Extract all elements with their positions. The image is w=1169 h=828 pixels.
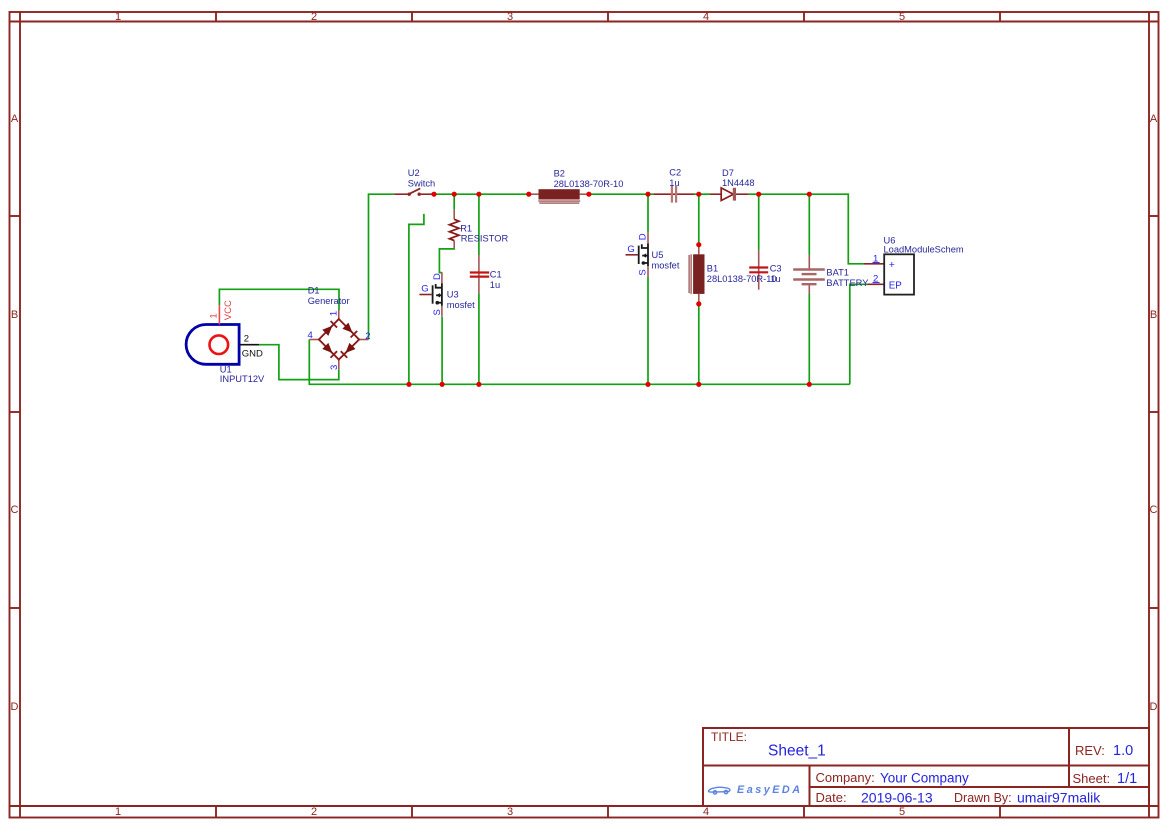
svg-text:mosfet: mosfet	[447, 300, 475, 310]
svg-text:C3: C3	[770, 264, 782, 274]
svg-text:4: 4	[703, 806, 709, 818]
svg-text:D7: D7	[722, 168, 734, 178]
svg-text:Sheet_1: Sheet_1	[768, 743, 826, 760]
svg-text:REV:: REV:	[1075, 743, 1105, 758]
svg-text:A: A	[1150, 113, 1158, 125]
svg-text:D1: D1	[308, 286, 320, 296]
svg-text:D: D	[11, 701, 19, 713]
svg-text:1: 1	[329, 311, 340, 316]
svg-text:GND: GND	[242, 349, 263, 360]
svg-text:1: 1	[115, 806, 121, 818]
svg-text:B: B	[1150, 309, 1157, 321]
svg-text:3: 3	[329, 365, 340, 370]
svg-text:B: B	[11, 309, 18, 321]
svg-text:B1: B1	[707, 264, 718, 274]
svg-text:D: D	[637, 233, 648, 240]
svg-text:2: 2	[244, 334, 249, 345]
svg-text:EP: EP	[889, 280, 903, 291]
svg-text:D: D	[432, 273, 443, 280]
svg-text:5: 5	[899, 11, 905, 23]
svg-text:Drawn By:: Drawn By:	[954, 791, 1012, 805]
svg-text:28L0138-70R-10: 28L0138-70R-10	[554, 179, 624, 189]
svg-text:INPUT12V: INPUT12V	[220, 374, 265, 384]
svg-text:2: 2	[311, 806, 317, 818]
svg-text:C2: C2	[669, 168, 681, 178]
svg-text:A: A	[11, 113, 19, 125]
svg-text:S: S	[432, 309, 443, 315]
svg-text:Your Company: Your Company	[880, 771, 969, 786]
svg-text:3: 3	[507, 806, 513, 818]
svg-text:umair97malik: umair97malik	[1017, 790, 1101, 806]
svg-text:mosfet: mosfet	[652, 260, 680, 270]
svg-text:5: 5	[899, 806, 905, 818]
svg-text:LoadModuleSchem: LoadModuleSchem	[884, 245, 964, 255]
svg-text:G: G	[421, 284, 428, 295]
svg-text:4: 4	[308, 330, 313, 341]
svg-text:2: 2	[873, 273, 878, 284]
svg-text:2: 2	[365, 331, 370, 342]
svg-text:Generator: Generator	[308, 296, 350, 306]
svg-text:1u: 1u	[770, 274, 780, 284]
svg-text:2: 2	[311, 11, 317, 23]
svg-text:BATTERY: BATTERY	[826, 278, 868, 288]
svg-text:1u: 1u	[490, 280, 500, 290]
svg-text:R1: R1	[460, 223, 472, 233]
svg-text:1: 1	[115, 11, 121, 23]
svg-text:2019-06-13: 2019-06-13	[861, 790, 933, 806]
svg-text:1/1: 1/1	[1117, 771, 1137, 787]
svg-text:C1: C1	[490, 270, 502, 280]
svg-text:S: S	[637, 269, 648, 275]
svg-text:Company:: Company:	[816, 770, 875, 785]
svg-text:1: 1	[208, 313, 219, 318]
svg-text:4: 4	[703, 11, 709, 23]
svg-text:Switch: Switch	[408, 179, 435, 189]
svg-text:TITLE:: TITLE:	[711, 730, 747, 744]
svg-text:G: G	[627, 244, 634, 255]
svg-text:1u: 1u	[669, 178, 679, 188]
svg-text:U2: U2	[408, 168, 420, 178]
svg-text:B2: B2	[554, 169, 565, 179]
svg-text:U3: U3	[447, 290, 459, 300]
svg-text:C: C	[1150, 504, 1158, 516]
svg-text:U5: U5	[652, 250, 664, 260]
svg-text:3: 3	[507, 11, 513, 23]
svg-text:D: D	[1150, 701, 1158, 713]
svg-text:+: +	[889, 259, 895, 271]
svg-text:1.0: 1.0	[1113, 743, 1133, 759]
svg-text:BAT1: BAT1	[826, 268, 849, 278]
svg-text:C: C	[11, 504, 19, 516]
svg-text:1N4448: 1N4448	[722, 178, 755, 188]
svg-text:1: 1	[873, 253, 878, 264]
svg-text:VCC: VCC	[223, 300, 234, 320]
svg-text:Date:: Date:	[816, 790, 847, 805]
svg-text:28L0138-70R-10: 28L0138-70R-10	[707, 274, 777, 284]
svg-text:RESISTOR: RESISTOR	[461, 234, 509, 244]
svg-text:Sheet:: Sheet:	[1073, 771, 1111, 786]
svg-text:EasyEDA: EasyEDA	[737, 784, 803, 796]
